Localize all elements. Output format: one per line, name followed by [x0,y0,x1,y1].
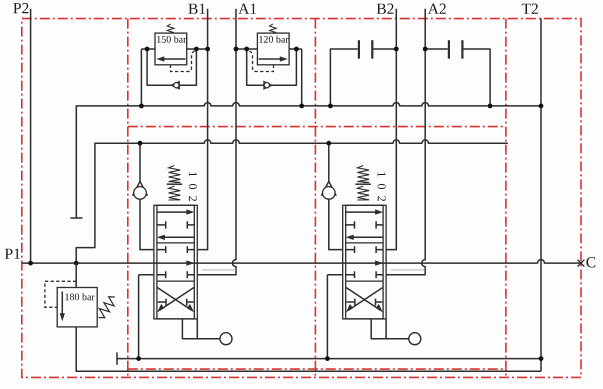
port label P1 [5,249,20,259]
DV2 position 2 blocked ports [346,246,383,278]
plugged end of return line [116,352,118,364]
wire feed to DV2 load check [328,143,330,181]
DV2 internal passage (faint) [391,269,425,271]
junction RV2 drop-tank gallery [299,104,304,109]
junction RV1 outlet node [194,47,199,52]
relief valve RV3 flow arrow [60,292,65,322]
wire B2 riser [386,9,396,250]
wire RV2 inlet from A1 [236,48,257,50]
wire plugged cavity B2 right leg [373,48,396,50]
port label B1 [188,4,205,14]
section divider 2 (red dash-dot) [314,19,316,378]
DV2 position 1 flow arrows [346,209,383,240]
wire main pressure line P1-C [22,260,581,264]
wire DV2 check to P port [329,199,343,249]
relief valve RV3 spring [99,297,115,318]
DV2 lever knob [409,333,421,345]
relief valve RV2 value label [259,36,288,43]
DV1 lever knob [220,333,232,345]
relief valve RV1 flow arrow [156,56,185,61]
DV1 centering spring [167,166,183,201]
DV2 lever linkage [371,319,409,339]
wire A1 riser (hops main line) [197,9,236,275]
wire RV1 outlet to B1 [187,48,208,50]
DV1 position 2 open-centre arrow [186,260,194,265]
junction cavityA2-tank gallery [488,104,493,109]
wire feed gallery (lower bus) [76,140,508,263]
wire RV1 bypass loop [147,49,196,85]
junction cavityB2-tank gallery [328,104,333,109]
port label P2 [13,3,28,13]
wire RV1 inlet drop to tank gallery [140,49,142,106]
wire RV1 inlet [141,48,155,50]
wire RV2 bypass loop [247,49,297,85]
DV1 position 3 crossed arrows [157,287,194,312]
load check valve of DV1 [133,181,148,199]
relief valve RV1 pilot line (dashed) [171,50,197,71]
plug plate pair A2 [449,40,463,58]
DV1 position 1 blocked ports [157,221,194,228]
plug plate pair B2 [359,40,372,58]
wire plugged cavity A2 left leg [425,48,448,50]
junction cavityB2-B2 riser [394,47,399,52]
port label T2 [522,4,538,14]
junction RV2-A1 riser [234,47,239,52]
wire B1 riser [197,9,207,250]
wire tank gallery (upper bus) [76,103,541,218]
wire relief return bottom line [76,327,541,371]
relief valve RV1 body [155,33,187,65]
DV2 position 1 blocked ports [346,221,383,228]
junction feed gallery-DV2 check [326,141,331,146]
relief valve RV2 spring [270,24,277,33]
relief valve RV3 body [57,288,97,327]
wire main-RV3 branch [75,263,77,287]
port label B2 [377,4,394,14]
junction RV1 inlet node [145,47,150,52]
DV2 position 2 open-centre arrow [375,260,383,265]
port label A2 [428,4,446,14]
junction RV2 inlet node [244,47,249,52]
DV1 lever linkage [182,319,220,339]
DV1 position digits 1 0 2 [189,172,197,201]
junction cavityA2-A2 riser [423,47,428,52]
DV2 position 3 crossed arrows [346,287,383,312]
wire RV2 outlet drop to tank gallery [301,49,303,106]
relief valve RV1 spring [167,24,174,33]
DV1 position 2 blocked ports [157,246,194,278]
check valve in RV1 bypass [171,82,179,89]
wire DV1 T port to return line [139,275,154,359]
directional valve DV1 body [154,205,197,319]
load check valve of DV2 [321,181,336,199]
section divider 3 (red dash-dot) [505,19,507,378]
junction RV2 outlet node [294,47,299,52]
DV1 position 3 blocked ports [158,299,194,306]
plugged end of tank gallery [70,217,82,219]
relief valve RV2 body [257,33,289,65]
junction P2-main [28,261,33,266]
junction T2-tank gallery [539,104,544,109]
DV2 position digits 1 0 2 [378,172,386,201]
relief valve RV3 pilot line (dashed) [45,281,76,307]
wire T2 riser [540,18,542,371]
directional valve DV2 body [343,205,386,319]
port marker x at C [578,260,585,267]
wire A2 riser (hops main line) [386,9,425,275]
junction RV1 drop-tank gallery [139,104,144,109]
wire plugged cavity B2 left leg [330,49,357,106]
DV2 centering spring [355,166,371,201]
relief valve RV3 value label [65,293,94,300]
port label C [586,257,595,268]
wire RV2 outlet [289,48,302,50]
wire DV2 T port to return line [327,275,342,359]
wire return line (to T2) [117,358,541,360]
junction DV2 T-return line [325,356,330,361]
wire DV1 check to P port [140,199,154,249]
relief valve RV2 flow arrow [259,56,288,61]
inner enclosure bottom edge (red dash-dot) [128,368,506,370]
DV1 internal passage (faint) [202,269,236,271]
wire feed to DV1 load check [139,143,141,181]
wire plugged cavity A2 right leg [464,49,491,106]
relief valve RV1 value label [157,36,186,43]
wire P2 riser [30,9,32,263]
junction DV1 T-return line [136,356,141,361]
junction feed gallery-main [74,261,79,266]
section divider 1 (red dash-dot) [127,19,129,378]
junction T2-return line [539,356,544,361]
DV2 position 3 blocked ports [347,299,383,306]
DV1 position 1 flow arrows [157,209,194,240]
junction RV1-B1 riser [205,47,210,52]
relief valve RV2 pilot line (dashed) [248,50,274,71]
port label A1 [238,4,256,14]
inner enclosure top edge (red dash-dot) [128,126,506,128]
junction feed gallery-DV1 check [138,141,143,146]
check valve in RV2 bypass [264,82,272,89]
